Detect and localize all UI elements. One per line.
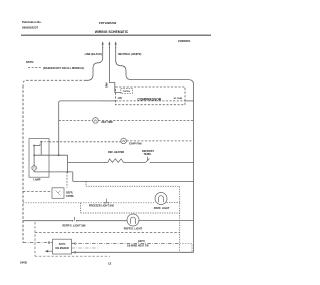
wire: heater line middle bbox=[124, 161, 146, 163]
svg-text:DEF TMR: DEF TMR bbox=[102, 121, 113, 124]
wire: icemaker feed from left rail bbox=[23, 242, 53, 244]
svg-text:5995352237: 5995352237 bbox=[22, 26, 38, 30]
wire: refrigerator light line bbox=[23, 220, 128, 222]
svg-text:LINE (BLACK): LINE (BLACK) bbox=[85, 52, 103, 56]
svg-text:AUTO: AUTO bbox=[59, 243, 66, 246]
svg-text:12: 12 bbox=[108, 261, 112, 265]
wire: defrost heater line left part bbox=[68, 161, 108, 163]
svg-text:1/8 WIRE HEAT 7W: 1/8 WIRE HEAT 7W bbox=[127, 244, 149, 247]
svg-text:REFR'G. LIGHT: REFR'G. LIGHT bbox=[124, 228, 143, 231]
defrost timer motor circle bbox=[93, 118, 99, 124]
compressor relay sub-box CNTRL bbox=[121, 88, 133, 93]
wire: y=155 line to corner bbox=[34, 154, 68, 156]
wire: vertical x=67.6 bbox=[67, 155, 69, 172]
freezer light bulb bbox=[155, 193, 167, 205]
wire: compressor feed into box bbox=[101, 100, 116, 102]
icemaker lower connector ticks bbox=[74, 251, 75, 254]
svg-text:TERM.: TERM. bbox=[144, 153, 152, 156]
wire: right neutral rail bbox=[193, 101, 195, 252]
wire: defrost timer dashed line bbox=[59, 120, 93, 122]
defrost heater resistor zigzag bbox=[108, 159, 124, 163]
defrost termination thermostat symbol bbox=[146, 157, 152, 163]
wire: dotted branch riser x=80.5 bbox=[80, 203, 82, 213]
svg-text:Publication No.: Publication No. bbox=[22, 20, 42, 24]
wire: dashed feed to defrost control bbox=[23, 191, 52, 193]
thermostat contact dot A bbox=[33, 145, 35, 147]
refrigerator light switch symbol bbox=[74, 217, 76, 221]
svg-text:ICE MAKER: ICE MAKER bbox=[55, 247, 69, 250]
freezer section dashed box bottom edge bbox=[35, 255, 110, 257]
wire: dashed left bus y=80 bbox=[23, 80, 86, 86]
freezer section dashed box top edge bbox=[35, 231, 180, 233]
power cord prong arrow middle (ground) bbox=[108, 43, 110, 48]
receptacle small dashed box bbox=[180, 244, 193, 253]
refrigerator control box (lamp box) bbox=[29, 139, 49, 178]
interior lamp bulb bbox=[32, 166, 37, 171]
wire: dashed riser to defrost control box bbox=[66, 172, 68, 188]
wire: dotted line y=213 bbox=[81, 212, 180, 214]
junction dot x=34 on y=155 bbox=[33, 154, 35, 156]
svg-text:240D6001: 240D6001 bbox=[178, 39, 191, 43]
wire: evap fan dashed line bbox=[49, 141, 121, 143]
wire: y=172 lamp return line bbox=[34, 172, 73, 182]
svg-text:NOTE:: NOTE: bbox=[26, 60, 34, 64]
wire: bulb to y=172 bbox=[33, 170, 35, 172]
wire: neutral from cord to right rail bbox=[116, 47, 194, 101]
svg-text:FRZR. LIGHT: FRZR. LIGHT bbox=[154, 207, 170, 210]
wire: black line from cord S-curve to left bus bbox=[86, 47, 103, 80]
wire: compressor inside run bbox=[116, 100, 186, 102]
svg-text:ST. RUN: ST. RUN bbox=[174, 98, 183, 100]
wire: thermostat vertical x=41 bbox=[40, 142, 42, 155]
freezer compartment dotted right edge bbox=[179, 186, 181, 243]
wire: thermostat output rail x=59 bbox=[59, 101, 101, 155]
thermostat contact dot B bbox=[40, 141, 42, 143]
svg-text:DEF. HEATER: DEF. HEATER bbox=[108, 151, 124, 154]
header rule bbox=[21, 34, 211, 36]
wire: dot B to evap fan line bbox=[41, 141, 49, 143]
refrigerator light bulb bbox=[127, 214, 139, 226]
icemaker right connector ticks bbox=[74, 242, 75, 245]
svg-text:FRT18B5AW: FRT18B5AW bbox=[99, 21, 116, 25]
svg-text:EVAP FAN: EVAP FAN bbox=[129, 143, 141, 146]
svg-text:LAMP: LAMP bbox=[33, 179, 40, 182]
wire: dashed far-left rail x=23 bbox=[22, 86, 24, 243]
freezer section dashed box left edge bbox=[34, 222, 36, 256]
wire: heater line to rail bbox=[151, 161, 194, 163]
wire: icemaker lower line to right rail bbox=[72, 251, 194, 253]
freezer compartment dotted top edge bbox=[86, 185, 180, 187]
wire: refr light to right rail bbox=[139, 219, 194, 221]
svg-text:-ON: -ON bbox=[117, 97, 122, 100]
freezer light switch symbol bbox=[105, 199, 109, 203]
wire: icemaker upper right dashed line bbox=[72, 243, 180, 245]
svg-text:COMPRESSOR: COMPRESSOR bbox=[137, 98, 161, 102]
svg-text:NEUTRAL (WHITE): NEUTRAL (WHITE) bbox=[118, 52, 141, 56]
svg-text:CNTRL: CNTRL bbox=[123, 91, 131, 93]
svg-text:REFR'G. LIGHT SW.: REFR'G. LIGHT SW. bbox=[62, 224, 86, 227]
wire: freezer light dotted line bbox=[23, 202, 156, 204]
svg-text:(HOT): (HOT) bbox=[138, 240, 145, 243]
power cord prong arrow left (line) bbox=[102, 43, 104, 48]
evap fan motor circle bbox=[121, 138, 127, 144]
svg-text:240D: 240D bbox=[20, 261, 27, 265]
wire: hot line dash-dot bbox=[72, 247, 99, 249]
wire: compressor to right rail bbox=[185, 100, 194, 102]
wire: neutral return to right rail y=181.4 bbox=[73, 180, 194, 182]
thermostat lever bbox=[34, 144, 40, 146]
compressor dashed box bbox=[116, 87, 186, 105]
junction dot at 67.6,172 bbox=[67, 171, 69, 173]
svg-text:FREEZER LIGHT SW.: FREEZER LIGHT SW. bbox=[89, 205, 114, 208]
junction dot x=59 rail on y=155 bbox=[58, 154, 60, 156]
svg-text:GRN: GRN bbox=[105, 82, 108, 88]
svg-text:(DASHED NOT ON ALL MODELS): (DASHED NOT ON ALL MODELS) bbox=[43, 66, 84, 70]
icemaker plug arrow symbol bbox=[48, 250, 52, 252]
wire: dotted stub to compartment line bbox=[85, 181, 87, 186]
auto ice maker box bbox=[53, 239, 72, 254]
wire: green ground from cord to compressor shell bbox=[109, 47, 121, 92]
wire: lamp box vertical x=34 bbox=[33, 146, 35, 166]
svg-text:CNTRL: CNTRL bbox=[66, 195, 75, 198]
note dashed sample bbox=[28, 67, 42, 69]
svg-text:WIRING SCHEMATIC: WIRING SCHEMATIC bbox=[95, 30, 129, 34]
power cord prong arrow right (neutral) bbox=[115, 43, 117, 48]
icemaker feed connector ticks bbox=[48, 241, 49, 244]
defrost control box bbox=[52, 188, 64, 199]
